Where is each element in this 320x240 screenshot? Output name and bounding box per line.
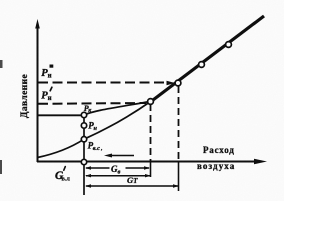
junction circle xyxy=(148,99,154,105)
label G'в.л below axis xyxy=(55,167,70,183)
x-axis arrowhead xyxy=(254,159,267,164)
dimension line Gв xyxy=(86,167,149,169)
scan grain overlay xyxy=(0,0,284,201)
dimension line middle xyxy=(86,175,150,177)
label Pн' xyxy=(41,87,52,102)
circle on operating line (upper) xyxy=(226,42,232,48)
solid vertical below axis at x=151 xyxy=(150,161,152,177)
label Pн* xyxy=(41,65,53,80)
circle on operating line (mid) xyxy=(199,62,205,68)
solid level line to point к xyxy=(38,114,82,116)
node circle к xyxy=(81,112,86,117)
dashed vertical below junction xyxy=(150,104,152,161)
dashed pressure level line Pн* xyxy=(38,82,166,84)
network parabola through Pв.с to junction xyxy=(38,102,151,158)
dashed vertical below circle on dashed A xyxy=(178,86,180,161)
circle on operating line (dashed A level) xyxy=(175,80,181,86)
solid vertical below axis at x=179 xyxy=(178,161,180,191)
x-axis xyxy=(37,161,258,163)
upper curve from к to junction xyxy=(84,102,150,116)
vertical marker line at G'в.л xyxy=(83,115,85,195)
scan artifact left edge upper xyxy=(0,60,3,68)
y-axis xyxy=(37,25,39,162)
node circle Pв.с xyxy=(81,137,86,142)
label Gв xyxy=(110,164,126,173)
y-axis arrowhead xyxy=(35,19,40,29)
scan artifact left edge lower xyxy=(0,160,2,174)
arrowhead into circle on operating line xyxy=(167,81,176,85)
thick operating line xyxy=(151,16,264,102)
node circle Pн xyxy=(81,123,86,128)
node circle on axis xyxy=(81,159,86,164)
dimension line GТ xyxy=(86,185,178,187)
dashed pressure level line Pн' xyxy=(38,102,146,105)
left flow arrow above axis xyxy=(108,155,134,157)
